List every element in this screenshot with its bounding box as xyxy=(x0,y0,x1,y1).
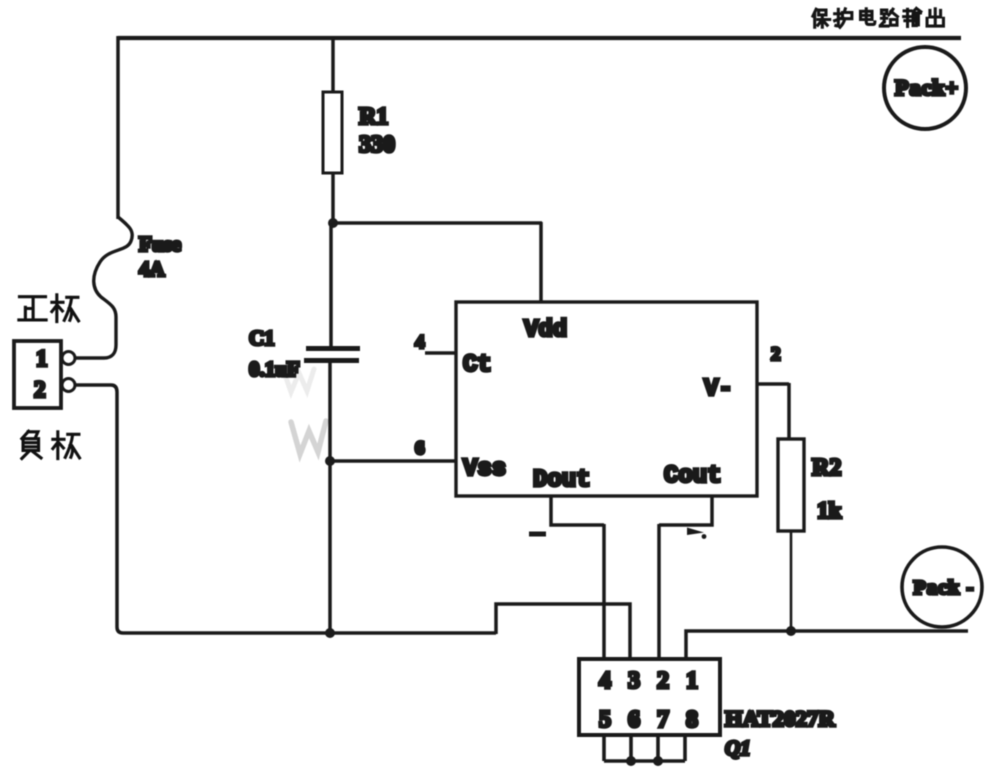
svg-text:Cout: Cout xyxy=(664,463,722,490)
capacitor C1 top plate xyxy=(306,346,360,351)
transistor Q1 package body xyxy=(579,659,720,735)
svg-text:Q1: Q1 xyxy=(725,736,751,760)
svg-text:4: 4 xyxy=(599,668,611,694)
capacitor C1 bottom plate xyxy=(304,358,359,363)
wire node A down to C1 top plate xyxy=(329,223,333,346)
label 正极 xyxy=(19,295,79,322)
node B junction dot xyxy=(325,456,335,466)
svg-text:Vdd: Vdd xyxy=(524,317,567,344)
svg-text:2: 2 xyxy=(34,377,46,402)
wire left vertical from top bus down to fuse xyxy=(116,36,120,219)
svg-text:330: 330 xyxy=(359,132,395,158)
watermark w2 light gray xyxy=(283,369,314,392)
IC U1 body xyxy=(456,302,757,496)
svg-text:R2: R2 xyxy=(812,455,841,481)
svg-text:Pack -: Pack - xyxy=(913,577,974,599)
pin 2 terminal circle xyxy=(62,379,75,392)
svg-text:1k: 1k xyxy=(817,498,842,523)
svg-text:2: 2 xyxy=(657,668,669,694)
svg-text:C1: C1 xyxy=(249,326,275,350)
wire Vss to node B xyxy=(330,459,456,463)
wire Q1 pin1 to bottom right bus xyxy=(686,631,968,659)
svg-text:0.1uF: 0.1uF xyxy=(249,357,300,381)
svg-text:1: 1 xyxy=(686,668,698,694)
svg-text:4A: 4A xyxy=(139,257,166,281)
pin 1 terminal circle xyxy=(62,352,75,365)
node C junction dot xyxy=(325,628,335,638)
wire C1 bottom to node B and bottom bus xyxy=(328,362,332,633)
label 负极 xyxy=(22,431,80,458)
svg-text:Ct: Ct xyxy=(463,352,492,379)
svg-text:8: 8 xyxy=(686,707,698,733)
wire pin2 to left vertical and bottom bus xyxy=(76,385,496,633)
svg-text:Fuse: Fuse xyxy=(139,232,181,256)
connector J1 box xyxy=(14,341,61,408)
node D junction dot xyxy=(786,626,796,636)
terminal Pack+ circle xyxy=(884,47,966,129)
svg-text:Vss: Vss xyxy=(463,456,506,483)
wire R2 to bottom bus xyxy=(790,531,793,631)
junction dot pin6 xyxy=(626,756,636,766)
wire Q1 bottom pins common bracket xyxy=(604,735,685,761)
resistor R1 body xyxy=(323,92,342,173)
pin 4 stub of U1 xyxy=(425,351,456,355)
wire R1 to node A xyxy=(331,173,335,223)
svg-text:3: 3 xyxy=(628,668,640,694)
svg-text:1: 1 xyxy=(36,346,48,371)
label plus polarity mark xyxy=(687,528,704,536)
label minus polarity xyxy=(529,532,546,537)
svg-text:HAT2027R: HAT2027R xyxy=(725,706,835,731)
svg-text:6: 6 xyxy=(415,438,425,459)
junction dot pin7 xyxy=(653,756,663,766)
watermark W light gray xyxy=(291,421,326,454)
svg-text:4: 4 xyxy=(415,332,425,353)
resistor R2 body xyxy=(778,439,804,531)
svg-text:V-: V- xyxy=(704,376,733,403)
wire top bus to R1 xyxy=(331,38,335,92)
svg-text:Pack+: Pack+ xyxy=(895,75,959,100)
label 保护电路输出 xyxy=(813,8,944,27)
wire V- pin to R2 xyxy=(757,383,789,439)
svg-text:7: 7 xyxy=(657,707,669,733)
svg-text:5: 5 xyxy=(599,707,611,733)
fuse F1 4A squiggle xyxy=(76,217,132,358)
wire Cout to Q1 pin2 xyxy=(659,496,712,659)
wire top bus xyxy=(118,36,961,40)
wire node A to Vdd pin xyxy=(333,222,542,303)
wire bottom step up to Q1 pin3 xyxy=(496,604,630,659)
node A junction dot xyxy=(328,218,338,228)
svg-text:6: 6 xyxy=(628,707,640,733)
svg-text:R1: R1 xyxy=(359,104,388,130)
terminal Pack- circle xyxy=(902,547,982,627)
svg-text:Dout: Dout xyxy=(533,467,591,494)
wire Dout to Q1 pin4 xyxy=(551,496,604,659)
svg-text:2: 2 xyxy=(771,344,781,365)
